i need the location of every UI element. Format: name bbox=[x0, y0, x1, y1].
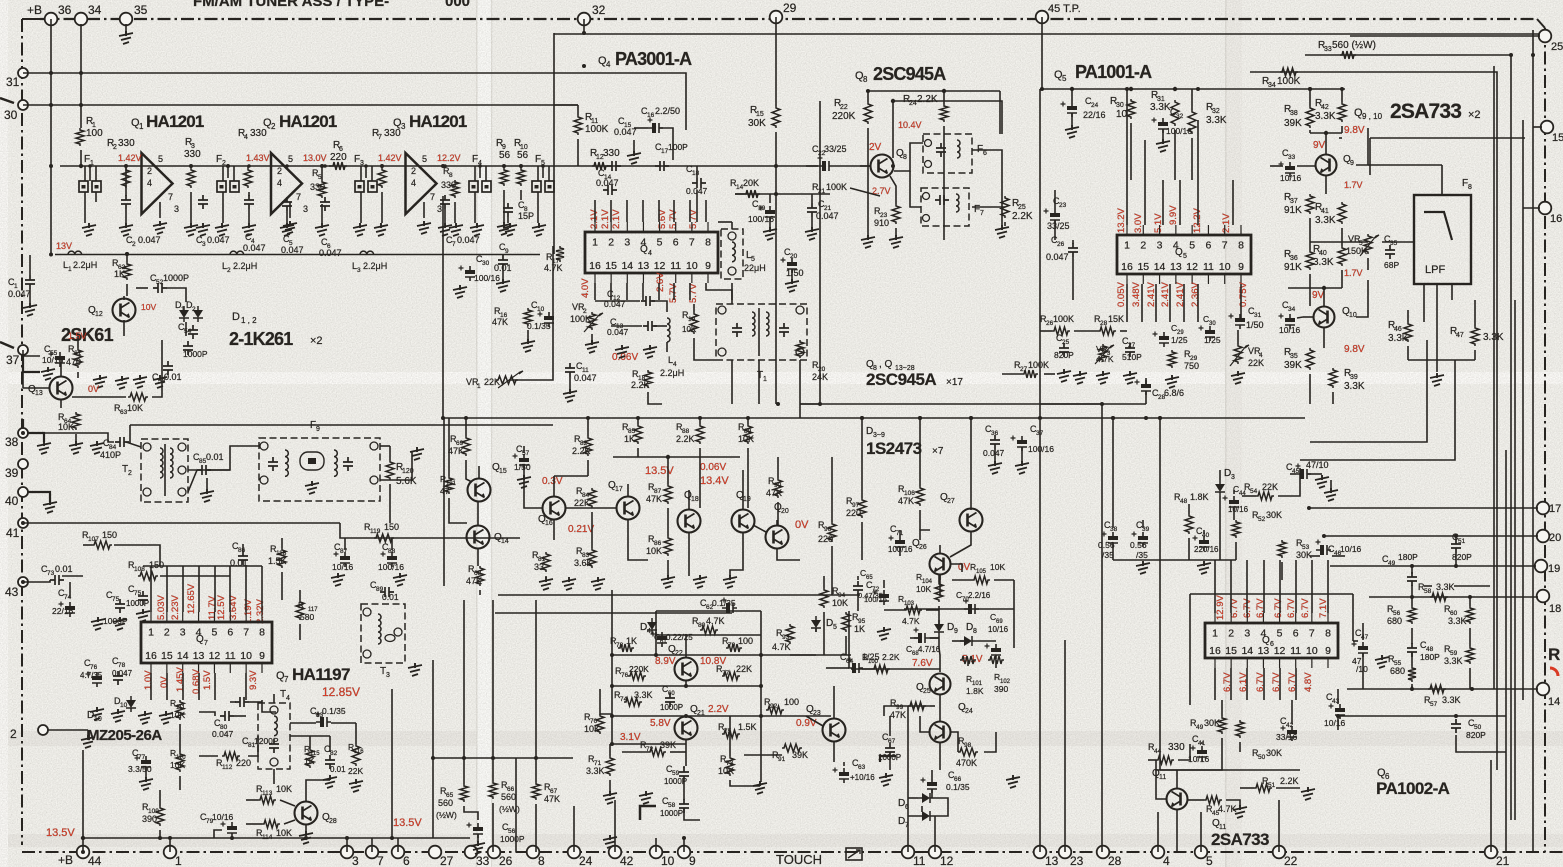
wire q3 drop bbox=[442, 196, 444, 418]
zener D10 bbox=[126, 700, 136, 708]
wire c22 l bbox=[806, 165, 818, 167]
svg-text:330: 330 bbox=[384, 128, 401, 139]
wire F5 col bbox=[542, 166, 544, 178]
svg-text:13.5V: 13.5V bbox=[46, 827, 75, 839]
svg-text:9: 9 bbox=[705, 260, 711, 272]
svg-text:13.5V: 13.5V bbox=[645, 465, 674, 477]
wire r30 bot bbox=[1130, 123, 1132, 180]
wire lpf topwire bbox=[1441, 165, 1443, 195]
wire c28 col bbox=[1145, 378, 1147, 384]
svg-text:2: 2 bbox=[608, 237, 614, 249]
wire c19 col bbox=[769, 194, 771, 203]
wire c45 gnd stub bbox=[1330, 480, 1332, 490]
wire q19q20 bbox=[753, 525, 766, 532]
transistor Q18 bbox=[678, 510, 701, 533]
svg-text:+B: +B bbox=[58, 853, 73, 867]
wire Q6 pin13 col bbox=[1263, 668, 1265, 700]
wire r104 fix bbox=[938, 575, 940, 582]
left border chain line bbox=[21, 19, 23, 845]
svg-text:47: 47 bbox=[1361, 634, 1369, 641]
svg-text:27: 27 bbox=[947, 498, 955, 505]
svg-text:25: 25 bbox=[923, 688, 931, 695]
transistor Q14 bbox=[467, 526, 490, 549]
capacitor C17 bbox=[655, 161, 669, 171]
transformer T1 bbox=[716, 304, 807, 360]
svg-text:0.1/35: 0.1/35 bbox=[712, 598, 736, 608]
resistor R7 bbox=[378, 168, 386, 188]
wire r38 bot bbox=[1309, 130, 1311, 133]
svg-text:12: 12 bbox=[1186, 261, 1198, 273]
svg-text:4.7K: 4.7K bbox=[1096, 354, 1114, 364]
IC U-Q7 bbox=[141, 622, 272, 663]
svg-text:4: 4 bbox=[1163, 854, 1170, 867]
wire R7 col bbox=[381, 166, 383, 168]
wire q26 b bbox=[951, 564, 962, 572]
junction bbox=[390, 836, 394, 840]
svg-text:4.7K: 4.7K bbox=[772, 642, 791, 652]
svg-text:560 (½W): 560 (½W) bbox=[1332, 40, 1376, 51]
resistor R44 bbox=[1156, 756, 1174, 764]
svg-text:77: 77 bbox=[722, 670, 730, 677]
svg-text:470K: 470K bbox=[956, 758, 977, 768]
wire q17 e bbox=[628, 519, 648, 560]
filter F5 bbox=[532, 181, 541, 192]
capacitor C81 bbox=[235, 697, 249, 707]
wire q14 e bbox=[477, 548, 479, 566]
junction amp bbox=[88, 164, 92, 168]
wire c64 junc bbox=[848, 655, 850, 668]
svg-text:19: 19 bbox=[688, 316, 696, 323]
svg-text:10/16: 10/16 bbox=[1340, 544, 1362, 554]
svg-text:107: 107 bbox=[88, 536, 99, 543]
grounds q16 bbox=[562, 577, 576, 590]
wire r85 bot bbox=[637, 448, 639, 457]
terminal 5 bottom bbox=[1195, 846, 1208, 859]
wire c65 col bbox=[857, 576, 859, 580]
svg-text:2.2K: 2.2K bbox=[882, 652, 900, 662]
wire r11 rail bbox=[554, 104, 578, 106]
svg-text:11: 11 bbox=[913, 854, 926, 867]
svg-text:2.2K: 2.2K bbox=[631, 380, 650, 390]
wire Q4 pin10 col bbox=[689, 283, 691, 300]
wire q5 toprail bbox=[1040, 88, 1345, 90]
svg-text:10: 10 bbox=[1219, 261, 1231, 273]
wire r82 bot bbox=[587, 460, 589, 476]
terminal 1 bottom bbox=[164, 846, 177, 859]
wire right vert c bbox=[1522, 120, 1524, 700]
svg-text:8: 8 bbox=[449, 172, 453, 179]
wire T1 bot2 bbox=[758, 360, 760, 404]
wire Q12 c bbox=[123, 296, 125, 300]
svg-text:98: 98 bbox=[964, 742, 972, 749]
wire r111 bot bbox=[179, 724, 181, 752]
capacitor C23 bbox=[1050, 213, 1060, 217]
LPF F8 bbox=[1414, 195, 1471, 284]
svg-text:7.6V: 7.6V bbox=[912, 658, 933, 669]
capacitor C57 bbox=[519, 458, 529, 462]
wire right nest 2 bbox=[1493, 66, 1495, 689]
wire Q7 pin14 col bbox=[182, 673, 184, 700]
wire r24 bot bbox=[943, 126, 945, 166]
junction bbox=[866, 89, 870, 93]
svg-text:PA1002-A: PA1002-A bbox=[1376, 779, 1450, 798]
svg-text:4.8V: 4.8V bbox=[1303, 672, 1314, 692]
svg-text:16: 16 bbox=[589, 260, 601, 272]
wire r63 r bbox=[152, 340, 162, 397]
wire bus 13 bbox=[1039, 420, 1041, 852]
grounds q18 row bbox=[661, 575, 675, 588]
resistor R16 bbox=[524, 308, 532, 326]
wire q26 e2 bbox=[939, 575, 941, 580]
junction bbox=[1144, 416, 1148, 420]
svg-text:(½W): (½W) bbox=[436, 810, 457, 820]
wire C52 link bbox=[136, 287, 148, 289]
resistor R56 bbox=[1408, 606, 1416, 624]
wire v849 bbox=[848, 611, 850, 655]
transistor Q28 bbox=[295, 802, 318, 825]
svg-text:9.8V: 9.8V bbox=[1344, 125, 1365, 136]
svg-text:3: 3 bbox=[401, 122, 406, 131]
capacitor C19 bbox=[765, 210, 775, 214]
svg-text:61: 61 bbox=[74, 350, 82, 357]
svg-text:91: 91 bbox=[778, 756, 786, 763]
svg-text:79: 79 bbox=[728, 642, 736, 649]
wire d67 col bbox=[921, 806, 923, 812]
junction bbox=[1038, 416, 1042, 420]
grounds q21 row bbox=[603, 791, 617, 804]
wire r73 bot bbox=[730, 780, 760, 786]
svg-text:100K: 100K bbox=[585, 124, 609, 135]
wire r70 col bbox=[600, 706, 612, 714]
svg-text:150K: 150K bbox=[1346, 246, 1367, 256]
svg-text:10: 10 bbox=[661, 854, 675, 867]
capacitor C77 bbox=[141, 760, 151, 764]
wire c23 b bbox=[1054, 220, 1056, 240]
wire c51 top bbox=[1455, 536, 1457, 540]
svg-text:2.2V: 2.2V bbox=[708, 704, 729, 715]
svg-text:2: 2 bbox=[277, 166, 282, 176]
node 31 bbox=[18, 68, 28, 78]
wire Q6 pin3 col bbox=[1246, 560, 1248, 613]
wire 2sa area bbox=[1356, 280, 1368, 317]
svg-text:114: 114 bbox=[262, 834, 273, 841]
resistor R71 bbox=[606, 756, 614, 776]
wire c74 col bbox=[69, 582, 71, 598]
svg-text:1.5K: 1.5K bbox=[738, 722, 757, 732]
wire r102 col bbox=[995, 660, 997, 668]
svg-text:5: 5 bbox=[1189, 240, 1195, 252]
svg-text:47: 47 bbox=[1456, 332, 1464, 339]
junction x51 bbox=[49, 253, 53, 257]
filter F4 bbox=[469, 181, 478, 192]
svg-text:12: 12 bbox=[1274, 645, 1286, 657]
wire Q5 pin1 col bbox=[1126, 180, 1128, 225]
svg-text:0V: 0V bbox=[88, 384, 99, 394]
terminal 36 bbox=[45, 13, 58, 26]
filter F1 bbox=[79, 181, 88, 192]
svg-text:56: 56 bbox=[499, 150, 511, 161]
svg-text:2: 2 bbox=[227, 267, 231, 274]
svg-text:2.2μH: 2.2μH bbox=[73, 260, 97, 270]
svg-text:2.2K: 2.2K bbox=[1012, 211, 1033, 222]
wire q12 e bbox=[123, 320, 125, 336]
resistor R111 bbox=[176, 700, 184, 720]
svg-text:100/16: 100/16 bbox=[474, 273, 500, 283]
node 41 bbox=[18, 518, 28, 528]
svg-text:26: 26 bbox=[1057, 241, 1065, 248]
svg-text:7: 7 bbox=[243, 627, 249, 639]
svg-text:29: 29 bbox=[783, 1, 797, 15]
capacitor C65 bbox=[853, 581, 863, 595]
wire r113 l bbox=[246, 799, 258, 801]
resistor R34 bbox=[1280, 68, 1298, 76]
resistor R61 bbox=[74, 348, 82, 368]
wire h744 bbox=[612, 743, 686, 745]
wire R62 col bbox=[126, 284, 128, 296]
svg-text:3.3k: 3.3k bbox=[1388, 333, 1408, 344]
capacitor C58 bbox=[679, 799, 689, 813]
wire q16q17 bbox=[565, 507, 617, 509]
svg-text:24K: 24K bbox=[812, 372, 828, 382]
wire h612 bbox=[656, 610, 761, 612]
wire q24 e bbox=[939, 743, 941, 770]
wire r117 bot bbox=[299, 624, 301, 640]
resistor R32 bbox=[1188, 110, 1196, 134]
wire r65 col bbox=[463, 600, 465, 784]
svg-text:HA1201: HA1201 bbox=[279, 112, 337, 131]
svg-text:57: 57 bbox=[1430, 701, 1438, 708]
wire r73 col bbox=[729, 716, 731, 756]
wire f6 link bbox=[894, 143, 923, 171]
svg-text:8: 8 bbox=[1238, 240, 1244, 252]
svg-text:HA1197: HA1197 bbox=[292, 665, 350, 684]
wire t4 top bbox=[273, 694, 275, 703]
wire q19 e bbox=[730, 532, 743, 576]
transistor Q11 bbox=[1167, 789, 1188, 810]
resistor R63 bbox=[128, 393, 148, 401]
resistor R110 bbox=[176, 752, 184, 772]
wire q26 e bbox=[939, 575, 941, 596]
svg-text:580: 580 bbox=[300, 612, 314, 622]
resistor R90 bbox=[774, 478, 782, 498]
wire if box top bbox=[554, 33, 1540, 35]
svg-text:1000P: 1000P bbox=[163, 273, 189, 283]
svg-text:75: 75 bbox=[134, 590, 142, 597]
terminal 14 bbox=[1537, 683, 1550, 696]
svg-text:3: 3 bbox=[303, 204, 308, 214]
capacitor C54 bbox=[188, 325, 198, 339]
ground C2 bbox=[125, 209, 127, 223]
wire c12 row bbox=[595, 300, 640, 302]
resistor R17 bbox=[556, 246, 564, 262]
wire f6 right bbox=[972, 150, 1002, 226]
svg-text:5: 5 bbox=[158, 154, 163, 164]
junction bbox=[969, 416, 973, 420]
diode D5 bbox=[811, 620, 821, 628]
wire d3 bot bbox=[1219, 496, 1221, 560]
resistor R22 bbox=[864, 102, 872, 124]
wire r84 col bbox=[591, 512, 593, 548]
wire vr2 g bbox=[591, 334, 593, 342]
svg-text:38: 38 bbox=[1110, 526, 1118, 533]
wire t3 drop bbox=[432, 660, 434, 683]
junction bbox=[1111, 416, 1115, 420]
svg-text:30K: 30K bbox=[748, 118, 766, 129]
wire q7 out bbox=[262, 700, 276, 712]
wire q7 h560 bbox=[143, 565, 262, 567]
svg-text:103: 103 bbox=[904, 601, 915, 607]
resistor R28 bbox=[1098, 327, 1116, 335]
node 39 bbox=[18, 459, 28, 469]
svg-text:4.7K: 4.7K bbox=[706, 616, 725, 626]
svg-text:0.06V: 0.06V bbox=[612, 352, 638, 363]
wire r34 run bbox=[1250, 72, 1497, 770]
resistor R66 bbox=[489, 781, 497, 799]
wire q23 up bbox=[833, 686, 835, 719]
wire Q6 pin8 col bbox=[1327, 560, 1329, 613]
wire stub 37 bbox=[23, 355, 40, 372]
wire r54 l bbox=[1242, 495, 1256, 497]
wire 40 stub bbox=[28, 492, 50, 502]
capacitor C83 bbox=[320, 717, 324, 727]
diode D7 bbox=[922, 811, 930, 821]
svg-text:16: 16 bbox=[647, 112, 655, 119]
svg-text:119: 119 bbox=[370, 528, 381, 535]
resistor R85 bbox=[634, 424, 642, 444]
svg-text:3: 3 bbox=[386, 672, 390, 679]
svg-text:910: 910 bbox=[874, 218, 889, 228]
wire Q6 pin15 col bbox=[1230, 668, 1232, 700]
resistor R9 bbox=[500, 168, 508, 186]
svg-text:40: 40 bbox=[1202, 532, 1210, 539]
pot VR5 bbox=[1364, 234, 1372, 254]
svg-text:15: 15 bbox=[161, 650, 173, 662]
wire q23 e bbox=[833, 741, 835, 762]
junction bbox=[684, 714, 688, 718]
svg-text:3: 3 bbox=[437, 204, 442, 214]
wire Q5 pin10 col bbox=[1240, 284, 1242, 322]
wire R5 col bbox=[321, 166, 323, 180]
capacitor C18 bbox=[692, 178, 706, 188]
terminal 23 bottom bbox=[1059, 846, 1072, 859]
svg-text:47K: 47K bbox=[898, 496, 914, 506]
wire r97 top bbox=[861, 418, 863, 498]
svg-text:28: 28 bbox=[329, 818, 337, 825]
transistor Q26 bbox=[930, 554, 951, 575]
wire R10 col bbox=[520, 166, 522, 168]
capacitor C30b bbox=[1205, 330, 1215, 334]
svg-text:7: 7 bbox=[378, 134, 382, 141]
resistor R30 bbox=[1127, 99, 1135, 119]
wire C52 r bbox=[167, 288, 186, 302]
svg-text:116: 116 bbox=[354, 749, 364, 755]
svg-text:25: 25 bbox=[1018, 204, 1026, 211]
wire Q5 pin5 col bbox=[1197, 180, 1199, 225]
svg-text:6: 6 bbox=[1206, 240, 1212, 252]
wire c86 col bbox=[242, 544, 244, 552]
svg-text:1.45V: 1.45V bbox=[175, 667, 186, 692]
junction bbox=[891, 164, 895, 168]
wire Q4 pin6 col bbox=[673, 200, 675, 222]
wire r97 bot bbox=[861, 522, 863, 560]
terminal 29 bbox=[770, 11, 783, 24]
resistor R95 bbox=[842, 612, 850, 632]
wire r54 r bbox=[1278, 468, 1300, 496]
junction bbox=[320, 164, 324, 168]
touch icon bbox=[846, 848, 862, 860]
wire R61 g bbox=[77, 372, 79, 378]
svg-text:12.5V: 12.5V bbox=[216, 595, 227, 620]
wire h716 bbox=[612, 715, 831, 717]
svg-text:13: 13 bbox=[1045, 854, 1059, 867]
resistor R91 bbox=[782, 744, 802, 752]
svg-text:3.3K: 3.3K bbox=[1315, 215, 1336, 226]
wire q13 c bbox=[60, 360, 62, 377]
wire v1160b bbox=[1159, 560, 1161, 770]
svg-text:2.2μH: 2.2μH bbox=[233, 261, 257, 271]
svg-text:(½W): (½W) bbox=[499, 804, 520, 814]
svg-text:108: 108 bbox=[134, 566, 145, 573]
svg-text:34: 34 bbox=[1268, 82, 1276, 89]
junction bbox=[969, 416, 973, 420]
wire Q5 pin15 col bbox=[1141, 284, 1143, 322]
svg-text:10: 10 bbox=[686, 260, 698, 272]
svg-text:0.01: 0.01 bbox=[206, 452, 224, 462]
svg-text:220: 220 bbox=[330, 152, 347, 163]
wire F1 col bbox=[89, 166, 91, 181]
wire c85 r bbox=[208, 469, 230, 471]
svg-text:36: 36 bbox=[1290, 255, 1298, 262]
svg-text:2: 2 bbox=[128, 470, 132, 477]
svg-text:13: 13 bbox=[35, 390, 43, 397]
capacitor C2 bbox=[121, 195, 131, 209]
wire term15 stub bbox=[1533, 126, 1542, 128]
wire c9 col bbox=[552, 246, 554, 255]
svg-text:33: 33 bbox=[476, 854, 490, 867]
wire rail 30 bbox=[23, 104, 578, 106]
svg-text:47K: 47K bbox=[448, 446, 464, 456]
svg-text:1K: 1K bbox=[114, 269, 125, 279]
svg-text:91K: 91K bbox=[1284, 262, 1302, 273]
svg-text:113: 113 bbox=[262, 790, 273, 797]
resistor R12 bbox=[592, 162, 608, 170]
svg-text:13: 13 bbox=[193, 650, 205, 662]
wire vr1 link bbox=[509, 255, 553, 380]
wire if box right bbox=[819, 101, 821, 404]
transistor Q20 bbox=[766, 526, 789, 549]
svg-text:6: 6 bbox=[227, 627, 233, 639]
svg-text:1/25: 1/25 bbox=[1204, 335, 1221, 345]
resistor R15 bbox=[772, 106, 780, 128]
capacitor C25 bbox=[1059, 343, 1069, 357]
terminal 33 bottom bbox=[465, 846, 478, 859]
svg-text:14: 14 bbox=[1241, 645, 1253, 657]
svg-text:100/16: 100/16 bbox=[378, 562, 404, 572]
wire c68 row2 bbox=[930, 637, 939, 639]
resistor R113 bbox=[258, 796, 276, 804]
ground R7 bbox=[381, 192, 383, 223]
wire r47 top bbox=[1474, 300, 1476, 326]
svg-text:22K: 22K bbox=[1248, 358, 1264, 368]
wire 45 drop bbox=[1041, 17, 1043, 89]
resistor R81 bbox=[542, 552, 550, 572]
svg-text:×7: ×7 bbox=[932, 446, 944, 457]
wire c68 l bbox=[910, 637, 918, 639]
svg-text:34: 34 bbox=[88, 3, 102, 17]
wire c48 top bbox=[1411, 628, 1413, 644]
wire Q7 pin13 col bbox=[198, 673, 200, 700]
wire d6 l bbox=[908, 797, 918, 799]
